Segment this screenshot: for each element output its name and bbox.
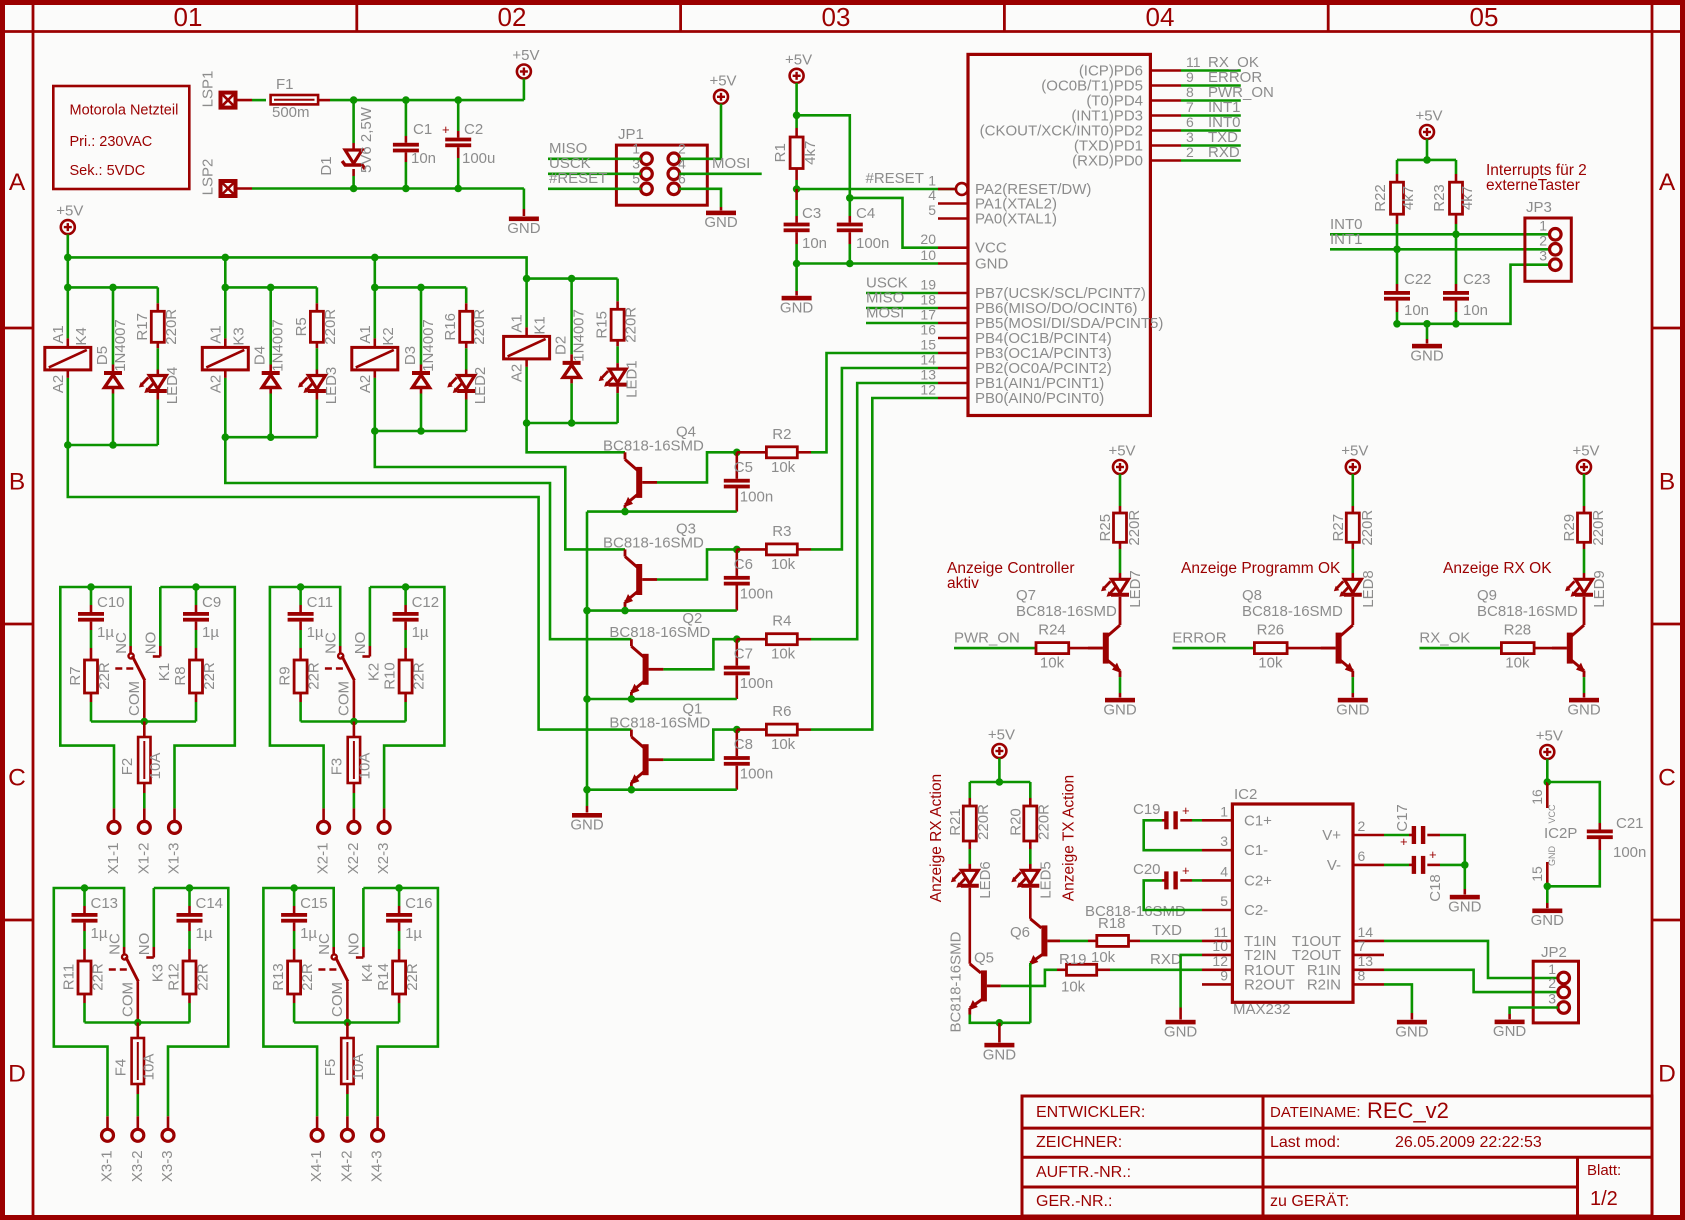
wire net TXD stub <box>1181 129 1241 146</box>
svg-text:NC: NC <box>106 933 123 955</box>
svg-text:JP3: JP3 <box>1526 199 1552 216</box>
svg-text:16: 16 <box>1529 789 1545 805</box>
svg-text:22R: 22R <box>96 662 113 690</box>
wire bottom rail K2 <box>371 427 466 435</box>
svg-text:10n: 10n <box>802 235 827 252</box>
svg-text:Sek.: 5VDC: Sek.: 5VDC <box>70 163 146 179</box>
svg-text:6: 6 <box>1186 114 1194 130</box>
resistor R21 220R <box>947 782 992 864</box>
wire contact block K2 NO stub <box>369 587 372 646</box>
wire Q5 base to R19 <box>1001 970 1057 986</box>
relay contact switch K4 <box>316 933 376 1023</box>
svg-text:1µ: 1µ <box>91 925 108 942</box>
svg-text:RX_OK: RX_OK <box>1419 630 1470 647</box>
svg-text:R5: R5 <box>293 317 310 336</box>
svg-text:GND: GND <box>1395 1023 1429 1040</box>
text Interrupts note <box>1486 162 1587 194</box>
svg-text:220R: 220R <box>322 309 339 345</box>
wire net RXD to IC2 pin12 <box>1110 951 1202 970</box>
resistor R8 22R <box>172 660 218 722</box>
resistor R20 220R <box>1007 782 1052 864</box>
pin 17 PB5(MOSI/DI/SDA/PCINT5) <box>920 307 1163 333</box>
node IC2P gnd junction <box>1544 883 1552 891</box>
node main rail junctions <box>64 254 379 262</box>
svg-text:1: 1 <box>1220 803 1228 819</box>
svg-text:R1: R1 <box>772 143 789 162</box>
resistor R1 4k7 <box>772 115 819 189</box>
svg-text:R16: R16 <box>442 313 459 341</box>
pin 16 PB4(OC1B/PCINT4) <box>920 322 1111 348</box>
svg-text:Motorola Netzteil: Motorola Netzteil <box>70 103 179 119</box>
node bottom rail junctions <box>350 185 462 193</box>
svg-text:C2-: C2- <box>1244 902 1268 919</box>
svg-text:100n: 100n <box>740 675 773 692</box>
svg-text:LED6: LED6 <box>977 861 994 899</box>
resistor R24 10k base resistor <box>954 622 1103 672</box>
svg-text:X4-1: X4-1 <box>308 1150 325 1182</box>
svg-text:(RXD)PD0: (RXD)PD0 <box>1072 153 1143 170</box>
terminal X2-1 <box>315 808 332 874</box>
wire Q5/Q6 emitter rail <box>970 1015 1031 1027</box>
svg-text:10: 10 <box>1212 938 1228 954</box>
svg-text:10A: 10A <box>350 1054 367 1081</box>
svg-text:LED9: LED9 <box>1591 570 1608 608</box>
svg-text:10n: 10n <box>1463 302 1488 319</box>
svg-text:GND: GND <box>507 220 541 237</box>
wire net MOSI to IC pin17 <box>866 305 938 324</box>
svg-text:D: D <box>1658 1061 1676 1088</box>
pin 3 C1- <box>1202 833 1268 859</box>
ground GND T2IN <box>1164 1008 1198 1041</box>
svg-text:100n: 100n <box>740 488 773 505</box>
svg-text:C13: C13 <box>91 895 119 912</box>
svg-text:2: 2 <box>678 141 686 157</box>
svg-text:10A: 10A <box>140 1054 157 1081</box>
diode D5 1N4007 <box>94 287 129 445</box>
svg-text:X3-1: X3-1 <box>98 1150 115 1182</box>
node top rail junctions <box>350 96 462 104</box>
svg-text:MOSI: MOSI <box>712 155 750 172</box>
wire contact block K3 inner bottom rail <box>85 1019 190 1027</box>
svg-text:22R: 22R <box>404 963 421 991</box>
wire emitter rail Q1 <box>587 786 737 794</box>
wire base Q3 jog <box>657 549 737 579</box>
svg-text:1N4007: 1N4007 <box>270 319 287 372</box>
svg-text:R10: R10 <box>382 662 399 690</box>
svg-text:R21: R21 <box>947 808 964 836</box>
ground GND Q8 <box>1336 677 1370 718</box>
svg-text:500m: 500m <box>272 104 310 121</box>
svg-text:X2-1: X2-1 <box>315 843 332 875</box>
svg-text:LED2: LED2 <box>472 367 489 405</box>
svg-text:R26: R26 <box>1257 622 1285 639</box>
capacitor C7 100n <box>724 639 773 699</box>
svg-text:BC818-16SMD: BC818-16SMD <box>948 931 965 1032</box>
capacitor C21 100n <box>1547 782 1646 886</box>
svg-text:R11: R11 <box>60 964 77 990</box>
wire contact block K2 top left loop <box>297 583 340 646</box>
capacitor C2 100u polarized <box>442 100 495 188</box>
terminal X4-1 <box>308 1116 325 1182</box>
pin 11 T1IN <box>1202 924 1277 950</box>
text Anzeige RX Action <box>928 774 945 902</box>
resistor R29 220R <box>1561 506 1607 573</box>
svg-text:3: 3 <box>1220 833 1228 849</box>
svg-text:1µ: 1µ <box>202 624 219 641</box>
svg-text:C4: C4 <box>856 205 875 222</box>
svg-text:5V6 2,5W: 5V6 2,5W <box>358 106 375 173</box>
svg-text:X3-3: X3-3 <box>159 1150 176 1182</box>
svg-text:C1-: C1- <box>1244 842 1268 859</box>
fuse F1 <box>271 76 319 121</box>
ground GND C3/C4 <box>780 264 814 317</box>
svg-text:10n: 10n <box>1404 302 1429 319</box>
svg-text:GER.-NR.:: GER.-NR.: <box>1036 1193 1112 1210</box>
svg-text:13: 13 <box>920 367 936 383</box>
transistor Q6 BC818-16SMD <box>1010 888 1186 966</box>
resistor R17 220R <box>134 287 180 348</box>
power +5V JP3 <box>1415 108 1442 160</box>
resistor R2 10k <box>737 426 811 476</box>
svg-text:22R: 22R <box>299 963 316 991</box>
capacitor C16 1u <box>386 888 433 961</box>
wire LSP2 bottom rail <box>235 187 524 190</box>
svg-text:Q7: Q7 <box>1016 587 1036 604</box>
terminal X3-2 <box>129 1116 146 1182</box>
svg-text:R2IN: R2IN <box>1307 976 1341 993</box>
wire Q6 emitter down <box>1029 963 1032 1023</box>
capacitor C14 1u <box>177 888 224 961</box>
svg-text:X1-2: X1-2 <box>135 843 152 875</box>
wire net RX_OK stub <box>1181 54 1259 71</box>
svg-text:BC818-16SMD: BC818-16SMD <box>609 715 710 732</box>
power +5V supply symbol <box>512 47 539 100</box>
resistor R13 22R <box>270 961 316 1023</box>
svg-text:LSP1: LSP1 <box>199 71 216 108</box>
wire contact block K1 inner bottom rail <box>91 718 196 726</box>
terminal LSP1 <box>199 71 235 108</box>
wire contact block K4 top right loop <box>363 884 403 892</box>
svg-text:K1: K1 <box>532 316 549 334</box>
svg-text:+5V: +5V <box>1415 108 1442 125</box>
svg-text:10k: 10k <box>1091 949 1116 966</box>
ground GND IC2P <box>1531 886 1565 929</box>
resistor R26 10k base resistor <box>1172 622 1335 672</box>
svg-text:10k: 10k <box>771 459 796 476</box>
svg-text:GND: GND <box>1493 1023 1527 1040</box>
svg-text:K4: K4 <box>359 964 376 982</box>
capacitor C5 100n <box>724 452 773 511</box>
wire contact block K2 inner bottom rail <box>301 718 406 726</box>
capacitor C1 10n <box>393 100 436 188</box>
svg-text:02: 02 <box>498 2 527 32</box>
svg-text:NO: NO <box>142 632 159 655</box>
svg-text:1µ: 1µ <box>97 624 114 641</box>
svg-text:K4: K4 <box>73 327 90 345</box>
svg-text:1: 1 <box>632 141 640 157</box>
svg-text:4k7: 4k7 <box>1459 186 1476 210</box>
svg-text:A1: A1 <box>357 325 374 343</box>
wire contact block K2 top right loop <box>370 583 410 591</box>
svg-text:A2: A2 <box>509 364 526 382</box>
svg-text:+: + <box>442 122 450 137</box>
resistor R9 22R <box>277 660 323 722</box>
wire contact block K1 outline left <box>60 587 114 808</box>
svg-text:16: 16 <box>920 322 936 338</box>
wire contact block K2 outline left <box>270 587 324 808</box>
svg-text:VCC: VCC <box>1547 804 1557 824</box>
capacitor C12 1u <box>393 587 440 660</box>
svg-text:13: 13 <box>1358 953 1374 969</box>
ground GND C17/C18 <box>1448 865 1482 915</box>
LED LED8 <box>1334 570 1377 608</box>
svg-text:Q6: Q6 <box>1010 924 1030 941</box>
wire R3 to IC pin <box>811 368 938 549</box>
LED LED2 <box>447 348 489 431</box>
pin 9 (OC0B/T1)PD5 <box>1041 69 1194 95</box>
terminal X3-1 <box>98 1116 115 1182</box>
node Q2 base junction <box>733 635 741 643</box>
LED LED5 <box>1011 861 1054 899</box>
pin 13 R1IN <box>1307 953 1384 979</box>
svg-text:LSP2: LSP2 <box>199 159 216 196</box>
wire base Q4 jog <box>657 452 737 482</box>
svg-text:BC818-16SMD: BC818-16SMD <box>1477 603 1578 620</box>
svg-text:C15: C15 <box>300 895 328 912</box>
node C17/C18 junction <box>1461 861 1469 869</box>
svg-text:100n: 100n <box>856 235 889 252</box>
svg-text:C22: C22 <box>1404 271 1432 288</box>
svg-text:V-: V- <box>1327 857 1341 874</box>
svg-text:INT1: INT1 <box>1330 231 1363 248</box>
svg-text:+5V: +5V <box>56 203 83 220</box>
power +5V left symbol <box>56 203 83 258</box>
wire net ERROR stub <box>1181 69 1262 86</box>
svg-text:6: 6 <box>1358 848 1366 864</box>
svg-text:22R: 22R <box>194 963 211 991</box>
fuse F4 10A <box>112 1023 157 1117</box>
svg-text:A1: A1 <box>207 325 224 343</box>
wire R6 to IC pin <box>811 398 938 730</box>
fuse F5 10A <box>322 1023 367 1117</box>
diode D1 zener 5V6 <box>318 100 375 188</box>
svg-text:B: B <box>1659 469 1675 496</box>
svg-text:4k7: 4k7 <box>1400 186 1417 210</box>
svg-text:C11: C11 <box>307 594 333 611</box>
pin 4 PA1(XTAL2) <box>928 187 1057 213</box>
svg-text:JP2: JP2 <box>1541 944 1567 961</box>
svg-text:R4: R4 <box>772 613 791 630</box>
svg-text:R2: R2 <box>772 426 791 443</box>
wire emitter rail Q4 <box>587 508 737 516</box>
svg-text:GND: GND <box>570 817 604 834</box>
svg-text:C14: C14 <box>196 895 224 912</box>
pin 10 GND <box>920 247 1008 273</box>
svg-text:15: 15 <box>920 337 936 353</box>
wire contact block K2 outline right <box>384 587 444 808</box>
power +5V R1 <box>785 51 812 115</box>
resistor R11 22R <box>60 961 106 1023</box>
svg-text:K2: K2 <box>365 663 382 681</box>
wire bottom rail K4 <box>64 441 158 449</box>
svg-text:Q5: Q5 <box>974 950 994 967</box>
svg-text:220R: 220R <box>471 309 488 345</box>
svg-text:8: 8 <box>1358 967 1366 983</box>
svg-text:7: 7 <box>1186 99 1194 115</box>
svg-text:PWR_ON: PWR_ON <box>954 630 1020 647</box>
wire net USCK to IC pin19 <box>866 275 938 294</box>
wire main +5V rail <box>68 257 527 278</box>
svg-text:1µ: 1µ <box>307 624 324 641</box>
svg-text:Pri.: 230VAC: Pri.: 230VAC <box>70 134 153 150</box>
svg-text:10k: 10k <box>1258 655 1283 672</box>
svg-text:GND: GND <box>1103 701 1137 718</box>
svg-text:C19: C19 <box>1133 801 1161 818</box>
wire net PWR_ON stub <box>1181 84 1274 101</box>
ground GND JP1 <box>679 189 738 231</box>
LED LED6 <box>951 861 994 899</box>
wire base Q1 jog <box>663 730 736 760</box>
wire contact block K3 outline left <box>54 888 108 1116</box>
wire net INT0 to JP3 pin1 <box>1330 216 1550 238</box>
node Q3 base junction <box>733 546 741 554</box>
svg-text:Blatt:: Blatt: <box>1587 1162 1621 1179</box>
svg-text:ZEICHNER:: ZEICHNER: <box>1036 1134 1122 1151</box>
svg-text:19: 19 <box>920 277 936 293</box>
svg-text:10n: 10n <box>411 150 436 167</box>
svg-text:IC2P: IC2P <box>1544 825 1577 842</box>
ground GND JP3 <box>1410 324 1444 365</box>
resistor R4 10k <box>737 613 811 663</box>
ground GND power supply <box>507 189 541 238</box>
wire contact block K4 NO stub <box>362 888 365 947</box>
wire T2IN to ground <box>1181 955 1202 1008</box>
fuse F3 10A <box>328 722 373 809</box>
svg-text:R7: R7 <box>67 666 84 685</box>
svg-text:10k: 10k <box>771 736 796 753</box>
svg-text:10A: 10A <box>356 753 373 780</box>
svg-text:Anzeige Programm OK: Anzeige Programm OK <box>1181 560 1341 577</box>
svg-text:+: + <box>1182 863 1190 878</box>
svg-text:+5V: +5V <box>988 727 1015 744</box>
svg-text:AUFTR.-NR.:: AUFTR.-NR.: <box>1036 1164 1131 1181</box>
resistor R5 220R <box>293 287 339 348</box>
svg-text:R2OUT: R2OUT <box>1244 976 1295 993</box>
LED LED1 <box>599 346 641 423</box>
svg-text:X1-1: X1-1 <box>105 843 122 875</box>
svg-text:22R: 22R <box>411 662 428 690</box>
svg-text:R22: R22 <box>1372 184 1389 212</box>
svg-text:X1-3: X1-3 <box>165 843 182 875</box>
svg-text:COM: COM <box>335 681 352 716</box>
capacitor C17 polarized <box>1384 804 1465 865</box>
frame row labels <box>8 169 1676 1088</box>
svg-text:1µ: 1µ <box>412 624 429 641</box>
svg-text:1N4007: 1N4007 <box>112 319 129 372</box>
svg-text:9: 9 <box>1220 967 1228 983</box>
wire emitter rail Q2 <box>587 695 737 703</box>
svg-text:10k: 10k <box>1505 655 1530 672</box>
pin 7 (INT1)PD3 <box>1071 99 1194 125</box>
terminal X1-1 <box>105 808 122 874</box>
pin 13 PB1(AIN1/PCINT1) <box>920 367 1104 393</box>
pin 1 PA2(RESET/DW) <box>928 173 1091 199</box>
svg-text:3: 3 <box>1539 248 1547 264</box>
ground GND transistor chain <box>570 806 604 834</box>
relay contact switch K2 <box>322 632 382 722</box>
ground GND Q7 <box>1103 677 1137 718</box>
diode D4 1N4007 <box>252 287 287 437</box>
svg-text:F3: F3 <box>328 758 345 776</box>
svg-text:GND: GND <box>983 1046 1017 1063</box>
pin 4 C2+ <box>1202 863 1272 889</box>
svg-text:220R: 220R <box>1359 510 1376 546</box>
svg-text:X2-2: X2-2 <box>345 843 362 875</box>
svg-text:TXD: TXD <box>1152 922 1182 939</box>
svg-text:A: A <box>9 169 26 196</box>
svg-text:C5: C5 <box>734 459 753 476</box>
svg-text:R14: R14 <box>375 963 392 991</box>
svg-text:12: 12 <box>920 382 936 398</box>
svg-text:100n: 100n <box>740 585 773 602</box>
wire LED rail <box>970 778 1031 786</box>
resistor R10 22R <box>382 660 428 722</box>
wire K2 coil to Q3 collector <box>375 431 625 549</box>
capacitor C6 100n <box>724 549 773 610</box>
svg-text:15: 15 <box>1529 866 1545 882</box>
wire JP3 pin3 to ground rail <box>1456 265 1550 324</box>
resistor R12 22R <box>165 961 211 1023</box>
svg-text:X4-3: X4-3 <box>369 1150 386 1182</box>
svg-text:+5V: +5V <box>785 51 812 68</box>
svg-text:D3: D3 <box>402 346 419 365</box>
wire contact block K4 outline right <box>378 888 438 1116</box>
pin 14 T1OUT <box>1292 924 1384 950</box>
svg-text:X3-2: X3-2 <box>129 1150 146 1182</box>
wire K1 coil to Q4 collector <box>527 423 625 452</box>
transistor Q1 BC818-16SMD <box>609 701 710 789</box>
wire contact block K3 top left loop <box>81 884 124 947</box>
wire GND row to IC pin10 <box>793 260 938 268</box>
svg-text:1N4007: 1N4007 <box>420 319 437 372</box>
svg-text:5: 5 <box>928 202 936 218</box>
svg-text:C1: C1 <box>413 121 432 138</box>
pin 12 PB0(AIN0/PCINT0) <box>920 382 1104 408</box>
power +5V RX/TX LEDs <box>988 727 1015 783</box>
svg-text:C9: C9 <box>202 594 221 611</box>
svg-text:100n: 100n <box>740 766 773 783</box>
svg-text:Last mod:: Last mod: <box>1270 1134 1340 1151</box>
connector JP2 <box>1533 944 1578 1023</box>
pin 9 R2OUT <box>1202 967 1295 993</box>
svg-text:NC: NC <box>322 632 339 654</box>
capacitor C8 100n <box>724 730 773 790</box>
capacitor C11 1u <box>288 587 333 660</box>
svg-text:4: 4 <box>928 187 936 203</box>
svg-text:C16: C16 <box>405 895 433 912</box>
svg-text:F5: F5 <box>322 1059 339 1077</box>
svg-text:7: 7 <box>1358 938 1366 954</box>
wire net TXD to IC2 pin11 <box>1140 922 1202 941</box>
svg-text:aktiv: aktiv <box>947 575 979 592</box>
wire emitter rail Q3 <box>587 607 737 615</box>
transistor Q7 BC818-16SMD <box>1016 587 1122 677</box>
wire contact block K4 outline left <box>263 888 317 1116</box>
wire branch rail K2 <box>371 284 466 292</box>
svg-text:220R: 220R <box>1035 804 1052 840</box>
svg-text:+5V: +5V <box>1572 443 1599 460</box>
transistor Q4 BC818-16SMD <box>603 423 704 511</box>
